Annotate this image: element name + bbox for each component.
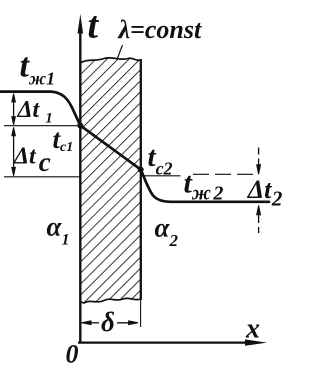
t_c2 level thin line (left side): [4, 176, 80, 178]
wall right edge: [140, 59, 142, 300]
t_c1 level thin line: [4, 125, 80, 127]
t axis (vertical, also left wall face): [79, 24, 81, 343]
wall right edge thin extension: [140, 300, 142, 327]
svg-text:tc1: tc1: [53, 124, 74, 155]
wall bottom wavy break edge: [80, 298, 141, 303]
t_c2 level dashed extension line: [193, 173, 255, 175]
svg-text:tж2: tж2: [184, 167, 224, 205]
svg-text:Δt1: Δt1: [17, 97, 53, 127]
svg-text:0: 0: [66, 340, 79, 369]
x axis arrowhead: [245, 339, 267, 345]
svg-text:λ=const: λ=const: [118, 15, 202, 44]
svg-text:α1: α1: [47, 212, 70, 249]
node t_c1 (dot on left wall face): [77, 123, 83, 129]
x axis (horizontal): [78, 342, 252, 344]
dim arrow delta-t2 upper (pointing down to t_c2 level): [257, 148, 261, 175]
lambda leader line: [118, 45, 123, 58]
t_c2 level solid extension line (right side): [143, 175, 181, 177]
svg-text:tж1: tж1: [20, 48, 56, 89]
svg-text:Δt2: Δt2: [247, 175, 283, 211]
delta dimension (wall thickness): [82, 321, 138, 325]
t axis arrowhead: [78, 14, 84, 34]
svg-text:tc2: tc2: [148, 141, 173, 179]
wall (hatched band between wavy break lines): [80, 58, 141, 303]
temperature curve: [0, 92, 269, 202]
svg-text:x: x: [245, 314, 260, 345]
dim arrow delta-t1 (between t_zh1 and t_c1 levels): [12, 94, 16, 125]
svg-text:Δtc: Δtc: [13, 143, 51, 177]
dim arrow delta-t2 lower (pointing up to t_zh2 level): [257, 205, 261, 233]
dim arrow delta-tc (between t_c1 and t_c2 levels): [12, 127, 16, 176]
svg-text:t: t: [88, 5, 100, 47]
svg-text:α2: α2: [155, 213, 179, 251]
wall top wavy edge: [80, 58, 141, 63]
node t_c2 (dot on right wall face): [138, 167, 144, 173]
svg-text:δ: δ: [101, 307, 115, 337]
